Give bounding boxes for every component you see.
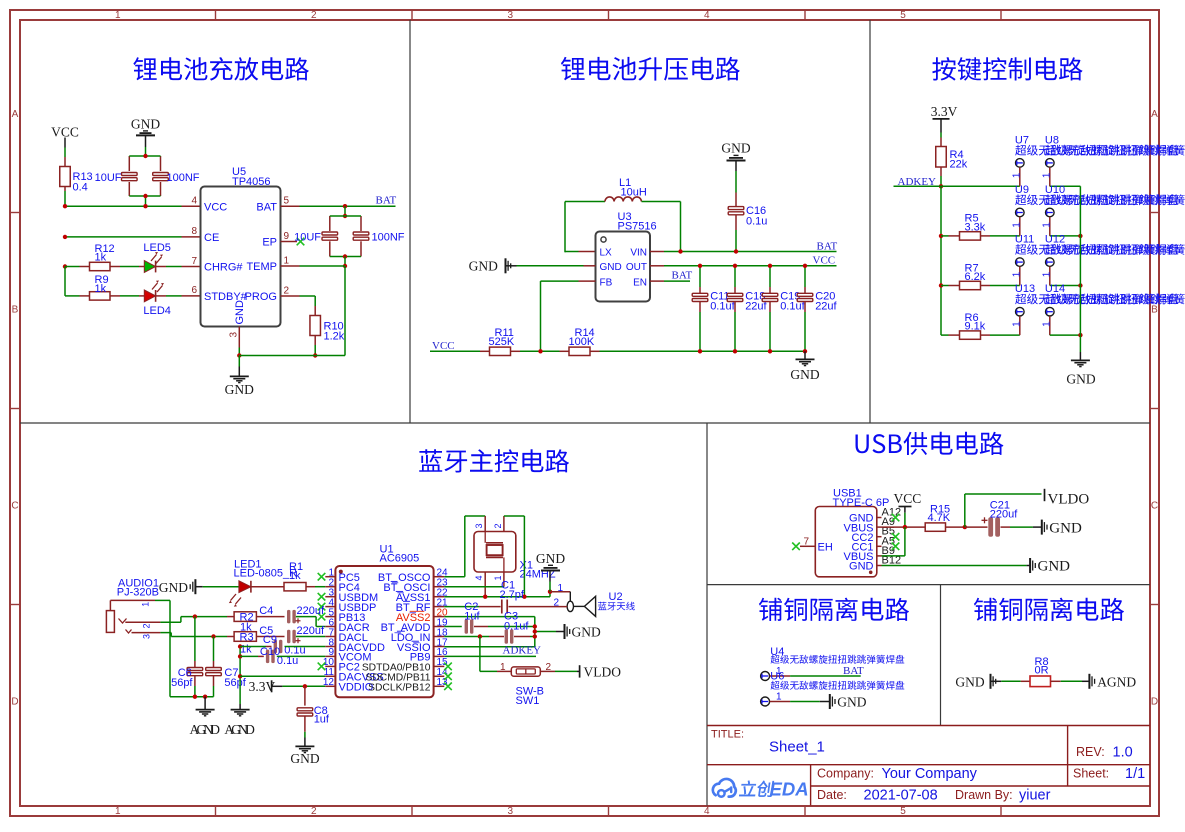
wire top to crystal bbox=[465, 515, 485, 517]
svg-text:GND: GND bbox=[837, 694, 866, 709]
svg-text:BAT: BAT bbox=[376, 195, 397, 207]
svg-text:GND: GND bbox=[234, 300, 246, 325]
resistor R10 bbox=[314, 306, 316, 316]
pad label U14 text bbox=[1045, 294, 1185, 305]
svg-text:0.4: 0.4 bbox=[73, 181, 88, 193]
svg-text:1k: 1k bbox=[289, 570, 301, 582]
wire VCC in bbox=[430, 350, 480, 352]
svg-text:GND: GND bbox=[159, 580, 188, 595]
svg-text:GND: GND bbox=[1038, 559, 1071, 575]
svg-text:GND: GND bbox=[955, 674, 984, 689]
ground AGND (rail) bbox=[239, 704, 241, 709]
svg-text:C9: C9 bbox=[263, 634, 277, 646]
wire caps to VCC rail bbox=[145, 196, 147, 206]
wire C21 to GND bbox=[1010, 526, 1033, 528]
junction bbox=[733, 264, 737, 268]
svg-text:1: 1 bbox=[776, 692, 782, 703]
pin 16 lead U1 bbox=[434, 655, 445, 657]
wire VSSIO row bbox=[444, 646, 535, 648]
svg-text:LED-0805_R: LED-0805_R bbox=[234, 568, 298, 580]
svg-text:1uf: 1uf bbox=[464, 611, 480, 623]
pin 9 lead EP bbox=[281, 241, 298, 243]
svg-text:1k: 1k bbox=[240, 643, 252, 655]
wire OUT row VCC bbox=[664, 265, 837, 267]
svg-text:BAT: BAT bbox=[672, 270, 693, 282]
ground GND (section1) bbox=[238, 367, 240, 377]
svg-text:4: 4 bbox=[191, 196, 197, 207]
svg-text:ADKEY: ADKEY bbox=[503, 644, 542, 656]
svg-text:5: 5 bbox=[284, 196, 290, 207]
svg-text:BAT: BAT bbox=[843, 665, 864, 677]
svg-text:1.0: 1.0 bbox=[1113, 745, 1133, 761]
wire bottom rail bbox=[600, 350, 806, 352]
no-connect X bbox=[444, 673, 452, 681]
title 锂电池升压电路 bbox=[561, 57, 740, 81]
svg-text:1k: 1k bbox=[95, 252, 107, 264]
resistor R14 100K bbox=[560, 350, 570, 352]
pad U4 (BAT) bbox=[761, 672, 770, 681]
power flag VLDO (SW) bbox=[577, 670, 580, 672]
resistor R8 0R bbox=[1021, 680, 1030, 682]
pin 8 lead bbox=[182, 236, 201, 238]
wire GND row bbox=[239, 355, 345, 357]
svg-text:1: 1 bbox=[1011, 222, 1022, 228]
wire 3.3V to pin12 bbox=[282, 685, 325, 687]
wire R7 to pad bbox=[990, 285, 1020, 287]
svg-text:EDA: EDA bbox=[770, 779, 809, 800]
pad U6 (GND) bbox=[761, 697, 770, 706]
wire right rail bbox=[1079, 186, 1081, 335]
pin 3 lead GND bbox=[238, 327, 240, 348]
wire LED4 to pin6 bbox=[166, 295, 182, 297]
resistor R2 1k bbox=[227, 616, 234, 618]
svg-text:U8: U8 bbox=[1045, 134, 1059, 146]
wire SW rail right bbox=[480, 670, 497, 672]
junction bbox=[63, 235, 67, 239]
svg-text:3: 3 bbox=[142, 634, 152, 639]
resistor R5 3.3k bbox=[949, 235, 960, 237]
svg-text:GND: GND bbox=[225, 382, 254, 397]
section divider horizontal mid bbox=[20, 422, 1150, 424]
wire row4 right pad bbox=[1050, 334, 1081, 336]
pin 13 lead U1 bbox=[434, 685, 445, 687]
LED D1 LED-0805_R bbox=[239, 581, 251, 593]
svg-text:C: C bbox=[11, 501, 18, 512]
capacitor C21 220uf bbox=[965, 526, 988, 528]
svg-text:AGND: AGND bbox=[190, 722, 221, 737]
svg-text:FB: FB bbox=[600, 277, 613, 288]
svg-text:VLDO: VLDO bbox=[584, 664, 622, 679]
svg-text:Your Company: Your Company bbox=[882, 766, 978, 782]
svg-text:5: 5 bbox=[900, 806, 906, 817]
wire C16 to BAT row bbox=[735, 230, 737, 252]
pin 3 lead U1 bbox=[325, 596, 335, 598]
pin 21 lead U1 bbox=[434, 606, 445, 608]
wire top left bbox=[565, 201, 605, 203]
wire row2 right pad bbox=[1050, 235, 1081, 237]
svg-text:GND: GND bbox=[131, 117, 160, 132]
pad label U10 text bbox=[1045, 194, 1185, 205]
svg-text:1uf: 1uf bbox=[314, 713, 330, 725]
svg-text:AGND: AGND bbox=[224, 722, 255, 737]
wire OUT to C11 bbox=[699, 266, 701, 287]
svg-text:2: 2 bbox=[311, 806, 317, 817]
wire pin24 right bbox=[444, 576, 465, 578]
wire OUT to C19 bbox=[769, 266, 771, 287]
no-connect X bbox=[318, 593, 326, 601]
section divider v1 bbox=[409, 20, 411, 423]
wire pin19 out bbox=[444, 626, 462, 628]
svg-text:A: A bbox=[1151, 109, 1158, 120]
svg-text:10UF: 10UF bbox=[95, 172, 122, 184]
pad label U11 text bbox=[1015, 244, 1178, 255]
pin 2 lead X1 bbox=[503, 516, 505, 532]
wire TEMP row bbox=[300, 265, 346, 267]
wire 3.3V to R4 bbox=[940, 133, 942, 138]
pin 2 lead U1 bbox=[325, 586, 335, 588]
wire AVSS2 rail down bbox=[534, 617, 536, 647]
wire U4 BAT bbox=[790, 675, 861, 677]
wire C8 to GND bbox=[304, 732, 306, 738]
capacitor C3 0.1uf bbox=[489, 636, 504, 638]
junction bbox=[343, 204, 347, 208]
svg-text:BAT: BAT bbox=[256, 201, 277, 213]
pin 23 lead U1 bbox=[434, 586, 445, 588]
wire BT_OSCI row bbox=[444, 586, 504, 588]
svg-text:PS7516: PS7516 bbox=[618, 221, 657, 233]
wire TEMP down bbox=[344, 266, 346, 356]
capacitor C4 220uf bbox=[256, 616, 284, 618]
svg-text:1: 1 bbox=[115, 806, 121, 817]
wire EN bbox=[664, 280, 690, 282]
wire caps to TEMP row bbox=[344, 257, 346, 267]
resistor R13 bbox=[64, 157, 66, 167]
wire right caps bottom bbox=[330, 256, 361, 258]
wire rail CHRG-STDBY bbox=[64, 267, 66, 296]
wire C7 top bbox=[213, 637, 215, 662]
svg-text:OUT: OUT bbox=[626, 262, 647, 273]
title block borders bbox=[707, 725, 1150, 727]
svg-text:U12: U12 bbox=[1045, 234, 1065, 246]
section divider v2 bbox=[869, 20, 871, 423]
svg-text:100NF: 100NF bbox=[167, 172, 200, 184]
svg-text:4: 4 bbox=[704, 10, 710, 21]
wire crystal top right bbox=[504, 515, 525, 517]
wire AVSS1 row bbox=[444, 596, 550, 598]
svg-text:VCC: VCC bbox=[894, 491, 922, 506]
pin 4 lead X1 bbox=[484, 572, 486, 597]
capacitor C1 2.7pf bbox=[479, 606, 501, 608]
svg-text:U2: U2 bbox=[609, 591, 623, 603]
pin 22 lead U1 bbox=[434, 596, 445, 598]
junction bbox=[698, 264, 702, 268]
no-connect X A5 bbox=[892, 543, 900, 551]
wire SW to VLDO bbox=[555, 670, 577, 672]
junction bbox=[939, 283, 943, 287]
wire R1 to pin2 bbox=[315, 586, 325, 588]
wire DACVSS row bbox=[240, 675, 325, 677]
pad label U4 text bbox=[771, 655, 905, 664]
junction bbox=[963, 525, 967, 529]
svg-text:Company:: Company: bbox=[817, 767, 874, 781]
wire OUT to C18 bbox=[734, 266, 736, 287]
svg-text:GND: GND bbox=[469, 258, 498, 273]
svg-text:B: B bbox=[1151, 305, 1158, 316]
title 铺铜隔离电路 right bbox=[974, 598, 1124, 621]
wire VCC down bbox=[904, 513, 906, 527]
wire jack pin3 bbox=[160, 632, 171, 634]
junction bbox=[238, 654, 242, 658]
wire C20 to rail bbox=[804, 312, 806, 351]
ground GND (C8) bbox=[304, 738, 306, 747]
wire R3 row left bbox=[171, 636, 227, 638]
wire VBUS tie bbox=[904, 527, 906, 556]
wire cap pair1 top bbox=[129, 155, 160, 157]
pin 1 lead X1 bbox=[503, 572, 505, 587]
svg-text:TITLE:: TITLE: bbox=[711, 729, 744, 741]
wire down to VIN bbox=[680, 202, 682, 252]
svg-text:PJ-320B: PJ-320B bbox=[117, 586, 159, 598]
svg-text:EN: EN bbox=[633, 277, 647, 288]
junction bbox=[803, 349, 807, 353]
wire R13 to VCC rail bbox=[64, 191, 66, 206]
svg-text:4: 4 bbox=[704, 806, 710, 817]
wire C11 to rail bbox=[699, 312, 701, 351]
pin 5 lead U1 bbox=[325, 616, 335, 618]
pin B5 lead bbox=[877, 536, 882, 538]
pin 10 lead U1 bbox=[325, 665, 335, 667]
crystal X1 24MHZ body bbox=[474, 532, 516, 573]
pin 18 lead U1 bbox=[434, 636, 445, 638]
svg-text:Sheet_1: Sheet_1 bbox=[769, 739, 825, 756]
svg-text:VCC: VCC bbox=[813, 254, 836, 266]
no-connect X B5 bbox=[892, 533, 900, 541]
svg-text:56pf: 56pf bbox=[224, 677, 246, 689]
wire audio bottom rail bbox=[170, 696, 214, 698]
wire jack pin1 right bbox=[155, 599, 170, 601]
svg-text:22k: 22k bbox=[950, 158, 968, 170]
capacitor C10 0.1u bbox=[258, 655, 264, 657]
svg-text:GND: GND bbox=[1049, 520, 1082, 536]
capacitor 10UF (left of U5) bbox=[128, 156, 130, 171]
wire jack pin1 down bbox=[169, 600, 171, 696]
pin 11 lead U1 bbox=[325, 675, 335, 677]
svg-text:AGND: AGND bbox=[1097, 674, 1136, 689]
svg-text:GND: GND bbox=[572, 624, 601, 639]
capacitor C9 0.1u bbox=[266, 646, 272, 648]
pin 17 lead U1 bbox=[434, 646, 445, 648]
capacitor C19 0.1uf bbox=[769, 287, 771, 293]
wire VCC to R13 bbox=[64, 148, 66, 158]
no-connect X bbox=[444, 663, 452, 671]
wire left rail bbox=[940, 186, 942, 335]
svg-text:1: 1 bbox=[284, 255, 290, 266]
svg-text:U9: U9 bbox=[1015, 184, 1029, 196]
svg-text:U13: U13 bbox=[1015, 283, 1035, 295]
svg-text:CHRG#: CHRG# bbox=[204, 262, 243, 274]
wire PROG row bbox=[300, 295, 316, 297]
svg-text:EP: EP bbox=[262, 237, 277, 249]
svg-text:C: C bbox=[1151, 501, 1158, 512]
svg-text:56pf: 56pf bbox=[171, 677, 193, 689]
capacitor C7 56pf bbox=[213, 661, 215, 667]
wire C10 to pin9 bbox=[277, 655, 326, 657]
wire cap pair1 bottom bbox=[129, 195, 160, 197]
wire C3 to rail bbox=[530, 636, 535, 638]
wire jack pin2 up bbox=[180, 617, 182, 623]
antenna U2 蓝牙天线 bbox=[550, 591, 570, 593]
svg-text:2: 2 bbox=[284, 285, 290, 296]
title 蓝牙主控电路 bbox=[419, 449, 569, 472]
wire GND to R8 bbox=[1001, 680, 1021, 682]
wire C19 to rail bbox=[769, 312, 771, 351]
junction bbox=[193, 614, 197, 618]
no-connect X bbox=[318, 603, 326, 611]
wire R6 to pad bbox=[990, 334, 1020, 336]
svg-text:GND: GND bbox=[1066, 372, 1095, 387]
svg-text:AC6905: AC6905 bbox=[380, 553, 420, 565]
LED D5 (green) bbox=[139, 266, 144, 268]
wire B9 row bbox=[882, 555, 905, 557]
svg-text:1: 1 bbox=[1011, 321, 1022, 327]
junction bbox=[303, 684, 307, 688]
svg-text:9.1k: 9.1k bbox=[965, 321, 986, 333]
wire AVSS1 corner up bbox=[549, 592, 551, 597]
svg-text:6: 6 bbox=[191, 285, 197, 296]
svg-text:VCC: VCC bbox=[51, 125, 79, 140]
wire VCC row bbox=[65, 205, 182, 207]
wire GND stub bbox=[145, 147, 147, 156]
svg-text:A: A bbox=[12, 109, 19, 120]
svg-text:D: D bbox=[11, 697, 18, 708]
junction bbox=[533, 624, 537, 628]
junction bbox=[533, 634, 537, 638]
pin VIN lead bbox=[650, 251, 664, 253]
junction bbox=[698, 349, 702, 353]
pin 24 lead U1 bbox=[434, 576, 445, 578]
junction bbox=[768, 264, 772, 268]
wire C2 to rail bbox=[488, 626, 535, 628]
wire to R12 bbox=[65, 266, 80, 268]
resistor R12 bbox=[80, 266, 90, 268]
junction bbox=[193, 695, 197, 699]
svg-text:2: 2 bbox=[493, 523, 503, 528]
wire pin24 up bbox=[464, 516, 466, 577]
title 按键控制电路 bbox=[932, 57, 1082, 81]
svg-text:R3: R3 bbox=[240, 631, 254, 643]
power flag GND (B12) bbox=[1027, 565, 1030, 567]
wire C6 bottom bbox=[194, 686, 196, 697]
svg-text:3: 3 bbox=[229, 332, 240, 338]
svg-text:1: 1 bbox=[1041, 271, 1052, 277]
svg-text:Sheet:: Sheet: bbox=[1073, 767, 1109, 781]
junction bbox=[768, 349, 772, 353]
wire right caps top bbox=[330, 215, 361, 217]
wire R7 left bbox=[941, 285, 949, 287]
power flag GND (C21) bbox=[1033, 526, 1041, 528]
svg-text:1: 1 bbox=[1011, 271, 1022, 277]
svg-text:Drawn By:: Drawn By: bbox=[955, 788, 1013, 802]
pad label U12 text bbox=[1045, 244, 1185, 255]
junction bbox=[63, 204, 67, 208]
svg-text:2: 2 bbox=[311, 10, 317, 21]
wire rail to GND bbox=[1079, 335, 1081, 352]
svg-text:1: 1 bbox=[1041, 172, 1052, 178]
svg-text:1: 1 bbox=[1011, 172, 1022, 178]
wire R6 left bbox=[941, 334, 949, 336]
pin 6 lead bbox=[182, 295, 201, 297]
capacitor C6 56pf bbox=[194, 661, 196, 667]
pin 3 lead X1 bbox=[484, 516, 486, 532]
svg-text:3: 3 bbox=[474, 523, 484, 528]
resistor R3 1k bbox=[227, 636, 234, 638]
svg-text:VIN: VIN bbox=[630, 248, 647, 259]
svg-text:1k: 1k bbox=[95, 283, 107, 295]
pin A9 lead bbox=[877, 526, 882, 528]
wire LX left bbox=[565, 251, 579, 253]
MCU U1 AC6905 body bbox=[335, 566, 433, 697]
wire C5 to pin7 bbox=[296, 636, 325, 638]
wire R8 to AGND bbox=[1061, 680, 1082, 682]
svg-text:CE: CE bbox=[204, 232, 219, 244]
wire GND to U3 bbox=[517, 265, 584, 267]
junction bbox=[533, 629, 537, 633]
pin B12 lead bbox=[877, 565, 882, 567]
svg-text:SW1: SW1 bbox=[516, 695, 540, 707]
junction bbox=[538, 349, 542, 353]
capacitor C11 0.1uf bbox=[699, 287, 701, 293]
resistor R1 1k bbox=[251, 586, 284, 588]
resistor R6 9.1k bbox=[949, 334, 960, 336]
svg-text:22uf: 22uf bbox=[815, 300, 837, 312]
no-connect X bbox=[444, 683, 452, 691]
wire AGND2 rail bbox=[239, 647, 241, 705]
junction bbox=[1078, 283, 1082, 287]
pin 7 lead bbox=[182, 266, 201, 268]
pin LX lead bbox=[579, 251, 596, 253]
wire C6 top bbox=[194, 617, 196, 661]
svg-text:GND: GND bbox=[790, 367, 819, 382]
power flag VLDO (USB) bbox=[1044, 489, 1046, 501]
svg-text:1: 1 bbox=[1041, 321, 1052, 327]
svg-text:BAT: BAT bbox=[817, 240, 838, 252]
no-connect X on EP bbox=[297, 238, 305, 246]
pin 2 lead PROG bbox=[281, 295, 300, 297]
wire R2 row left bbox=[181, 616, 227, 618]
pin 7 lead EH bbox=[800, 545, 815, 547]
wire R12 to LED5 bbox=[120, 266, 139, 268]
svg-text:B: B bbox=[12, 305, 19, 316]
wire GND stub down bbox=[238, 356, 240, 367]
switch SW1 SW-B bbox=[497, 670, 511, 672]
wire rail to GND flag bbox=[535, 631, 556, 633]
pin 19 lead U1 bbox=[434, 626, 445, 628]
capacitor 100NF (right of U5) bbox=[360, 216, 362, 231]
wire C18 to rail bbox=[734, 312, 736, 351]
svg-text:U14: U14 bbox=[1045, 283, 1065, 295]
svg-text:2.7pf: 2.7pf bbox=[500, 589, 525, 601]
svg-text:SDCLK/PB12: SDCLK/PB12 bbox=[368, 683, 431, 694]
svg-text:yiuer: yiuer bbox=[1019, 787, 1051, 803]
junction bbox=[478, 634, 482, 638]
title USB供电电路 bbox=[856, 432, 1004, 455]
svg-text:2021-07-08: 2021-07-08 bbox=[864, 787, 938, 803]
pin 4 lead bbox=[182, 205, 201, 207]
junction bbox=[734, 249, 738, 253]
svg-text:3: 3 bbox=[508, 806, 514, 817]
wire jack pin3 down bbox=[170, 633, 172, 637]
svg-text:0.1uf: 0.1uf bbox=[504, 621, 529, 633]
